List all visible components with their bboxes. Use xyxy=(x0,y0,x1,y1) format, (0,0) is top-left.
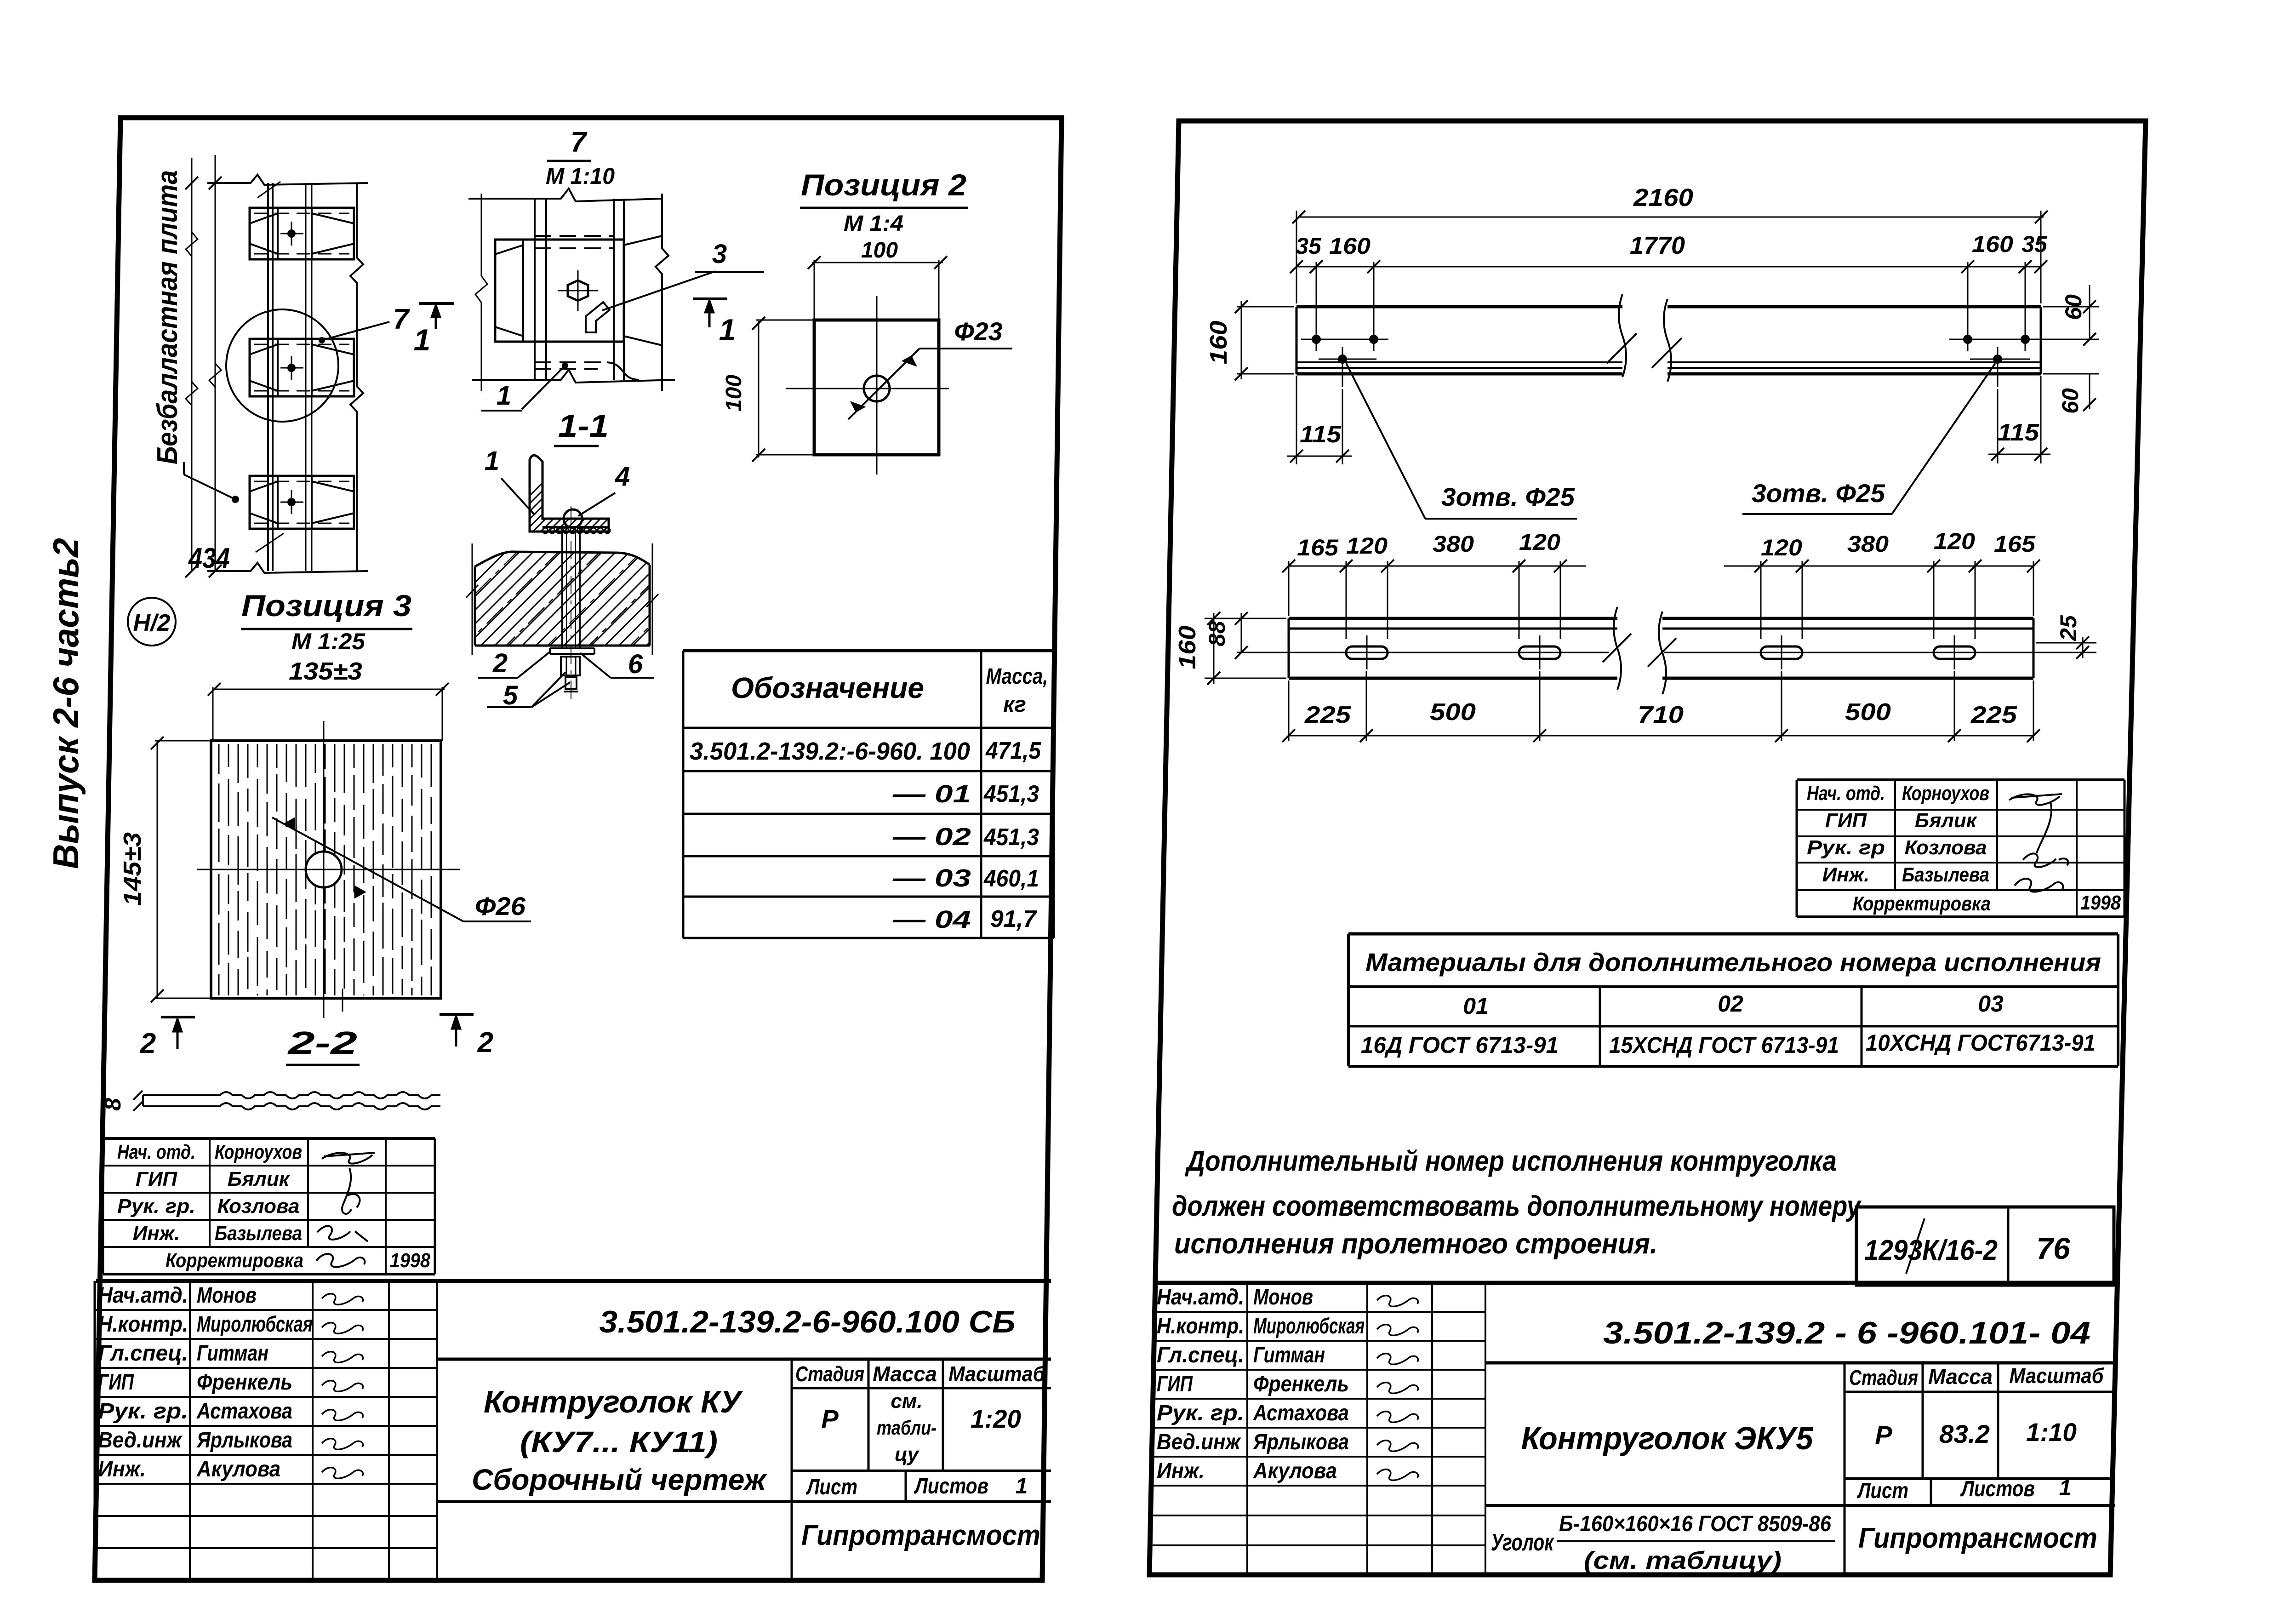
detail callout circle xyxy=(226,309,338,422)
svg-text:Безбалластная плита: Безбалластная плита xyxy=(152,170,183,464)
svg-text:15ХСНД ГОСТ 6713-91: 15ХСНД ГОСТ 6713-91 xyxy=(1609,1032,1839,1058)
svg-text:25: 25 xyxy=(2056,615,2081,641)
holes (dots) bar 1 xyxy=(1301,339,1388,340)
svg-text:Корректировка: Корректировка xyxy=(1853,892,1991,915)
svg-text:Инж.: Инж. xyxy=(1157,1459,1205,1483)
svg-text:Дополнительный номер исполне: Дополнительный номер исполнения контруго… xyxy=(1185,1145,1837,1177)
bar 1 left half xyxy=(1296,305,1622,309)
svg-text:М 1:25: М 1:25 xyxy=(291,629,365,654)
svg-text:Позиция 3: Позиция 3 xyxy=(241,589,411,623)
svg-text:3.501.2-139.2-6-960.100 СБ: 3.501.2-139.2-6-960.100 СБ xyxy=(600,1304,1016,1339)
svg-text:Р: Р xyxy=(1875,1420,1892,1449)
svg-text:35: 35 xyxy=(2022,231,2048,257)
svg-text:120: 120 xyxy=(1346,533,1388,559)
slots xyxy=(1346,646,1388,659)
svg-text:Козлова: Козлова xyxy=(217,1195,300,1218)
dim 25 right xyxy=(2036,642,2096,644)
svg-text:Масштаб: Масштаб xyxy=(948,1362,1045,1386)
svg-text:Нач. отд.: Нач. отд. xyxy=(117,1141,195,1163)
svg-text:1: 1 xyxy=(1016,1474,1028,1498)
svg-text:100: 100 xyxy=(861,238,898,263)
signatures sheet 2 xyxy=(2009,794,2062,853)
svg-text:Гипротрансмост: Гипротрансмост xyxy=(1858,1522,2097,1554)
svg-text:120: 120 xyxy=(1934,528,1975,554)
svg-text:Н/2: Н/2 xyxy=(133,610,171,636)
svg-text:Френкель: Френкель xyxy=(197,1370,292,1395)
svg-text:83.2: 83.2 xyxy=(1939,1419,1990,1448)
dims 60 right xyxy=(2043,306,2099,308)
clamp plate detail xyxy=(495,240,624,342)
leader to slab xyxy=(184,475,235,499)
svg-text:Р: Р xyxy=(821,1404,839,1433)
svg-text:Уголок: Уголок xyxy=(1491,1529,1554,1556)
svg-text:Бялик: Бялик xyxy=(1915,809,1978,832)
svg-text:Френкель: Френкель xyxy=(1253,1372,1349,1396)
svg-text:60: 60 xyxy=(2061,294,2086,320)
svg-text:8: 8 xyxy=(100,1098,126,1111)
clamp unit 1 xyxy=(250,208,354,259)
svg-text:Базылева: Базылева xyxy=(215,1222,302,1245)
svg-text:35: 35 xyxy=(1296,233,1322,259)
svg-text:Листов: Листов xyxy=(914,1474,988,1498)
svg-text:Б-160×160×16 ГОСТ 8509-86: Б-160×160×16 ГОСТ 8509-86 xyxy=(1559,1512,1831,1536)
svg-text:500: 500 xyxy=(1845,699,1891,726)
dim 35 160 1770 160 35 xyxy=(1316,262,1317,329)
bar 1 right half xyxy=(1668,305,2041,309)
dim 115 right xyxy=(1997,389,1999,463)
svg-text:цу: цу xyxy=(895,1443,920,1466)
svg-text:Базылева: Базылева xyxy=(1902,863,1989,886)
svg-text:Гл.спец.: Гл.спец. xyxy=(98,1341,188,1366)
plate square hatched (wood grain) xyxy=(211,741,441,998)
svg-text:Материалы для дополнительног: Материалы для дополнительного номера исп… xyxy=(1365,948,2101,977)
svg-text:Контруголок КУ: Контруголок КУ xyxy=(484,1384,743,1419)
svg-text:1: 1 xyxy=(497,381,511,411)
svg-text:Вед.инж: Вед.инж xyxy=(1157,1430,1241,1454)
nut xyxy=(561,657,580,675)
svg-text:1770: 1770 xyxy=(1630,232,1685,259)
stamp box xyxy=(1856,1207,2114,1285)
table Обозначение/Масса xyxy=(683,649,1054,652)
svg-text:Ф23: Ф23 xyxy=(954,317,1003,346)
svg-text:4: 4 xyxy=(615,462,630,492)
svg-text:(см. таблицу): (см. таблицу) xyxy=(1584,1547,1782,1574)
svg-text:Бялик: Бялик xyxy=(228,1168,291,1190)
svg-text:Рук. гр: Рук. гр xyxy=(1807,836,1885,859)
svg-text:Козлова: Козлова xyxy=(1905,836,1987,859)
dim 115 left xyxy=(1296,376,1297,464)
svg-text:2: 2 xyxy=(492,648,508,678)
svg-text:100: 100 xyxy=(722,375,746,412)
svg-text:Нач.атд.: Нач.атд. xyxy=(98,1283,188,1308)
svg-text:исполнения пролетного строе: исполнения пролетного строения. xyxy=(1174,1228,1657,1260)
svg-text:Стадия: Стадия xyxy=(1849,1366,1918,1390)
svg-text:Лист: Лист xyxy=(1856,1479,1908,1503)
svg-text:1:20: 1:20 xyxy=(971,1404,1021,1433)
svg-text:3отв. Ф25: 3отв. Ф25 xyxy=(1441,482,1575,511)
svg-text:Корноухов: Корноухов xyxy=(1902,782,1989,805)
svg-text:Нач. отд.: Нач. отд. xyxy=(1807,782,1885,805)
rail break marks xyxy=(256,533,284,552)
svg-text:160: 160 xyxy=(1174,625,1201,669)
svg-text:91,7: 91,7 xyxy=(990,906,1037,932)
svg-text:135±3: 135±3 xyxy=(289,658,362,685)
svg-text:165: 165 xyxy=(1297,535,1339,560)
svg-text:кг: кг xyxy=(1003,692,1026,717)
signatures scribbles xyxy=(322,1153,375,1164)
slab top edge xyxy=(207,175,368,185)
sheet 2 border frame xyxy=(1149,121,2146,1575)
svg-text:Инж.: Инж. xyxy=(133,1222,180,1245)
svg-text:160: 160 xyxy=(1329,233,1371,259)
svg-text:ГИП: ГИП xyxy=(1825,809,1867,832)
svg-text:Корректировка: Корректировка xyxy=(166,1249,303,1272)
svg-text:160: 160 xyxy=(1205,320,1232,364)
bolt head xyxy=(564,509,582,528)
svg-text:Масса,: Масса, xyxy=(986,664,1048,689)
svg-text:1-1: 1-1 xyxy=(558,408,609,444)
clamp unit 3 xyxy=(250,476,354,529)
signature block (sheet 1) xyxy=(103,1137,435,1140)
notch with leader 3 xyxy=(586,302,610,332)
svg-text:Гитман: Гитман xyxy=(1253,1343,1325,1367)
svg-text:434: 434 xyxy=(188,543,230,574)
svg-text:Ярлыкова: Ярлыкова xyxy=(1252,1430,1349,1454)
svg-text:1293К/16-2: 1293К/16-2 xyxy=(1864,1235,1998,1266)
svg-text:Корноухов: Корноухов xyxy=(215,1141,302,1163)
svg-text:Ф26: Ф26 xyxy=(475,892,526,921)
detail 7 view xyxy=(468,189,662,201)
clamp unit 2 xyxy=(250,339,354,396)
svg-text:2: 2 xyxy=(140,1028,156,1059)
svg-text:1: 1 xyxy=(719,313,736,347)
svg-text:— 01: — 01 xyxy=(892,780,971,808)
svg-text:145±3: 145±3 xyxy=(119,832,146,906)
svg-text:Гипротрансмост: Гипротрансмост xyxy=(801,1520,1040,1551)
leader Ф23 xyxy=(848,349,919,419)
svg-text:Миролюбская: Миролюбская xyxy=(1253,1314,1365,1338)
svg-text:должен соответствовать допол: должен соответствовать дополнительному н… xyxy=(1172,1190,1862,1222)
svg-text:380: 380 xyxy=(1433,531,1474,557)
slab right edge with breaks xyxy=(350,183,363,571)
svg-text:76: 76 xyxy=(2036,1231,2071,1265)
svg-text:380: 380 xyxy=(1847,531,1889,557)
svg-text:6: 6 xyxy=(628,649,643,679)
svg-text:7: 7 xyxy=(393,303,410,335)
svg-text:3отв. Ф25: 3отв. Ф25 xyxy=(1752,479,1885,508)
svg-text:03: 03 xyxy=(1978,991,2004,1017)
slab bottom edge xyxy=(207,563,368,573)
svg-text:460,1: 460,1 xyxy=(983,865,1039,892)
svg-text:10ХСНД ГОСТ6713-91: 10ХСНД ГОСТ6713-91 xyxy=(1866,1030,2096,1056)
svg-text:Нач.атд.: Нач.атд. xyxy=(1157,1285,1244,1309)
svg-text:2: 2 xyxy=(477,1027,493,1058)
dim 145±3 xyxy=(157,741,158,998)
svg-text:Листов: Листов xyxy=(1960,1477,2035,1501)
leader Ф26 xyxy=(272,818,463,921)
svg-text:1: 1 xyxy=(485,446,499,476)
svg-text:3.501.2-139.2:-6-960. 100: 3.501.2-139.2:-6-960. 100 xyxy=(690,738,970,765)
hole Ф23 xyxy=(864,376,890,401)
svg-text:01: 01 xyxy=(1463,993,1489,1019)
dim 160 left xyxy=(1237,306,1294,308)
title block sheet 1 xyxy=(96,1279,1051,1283)
svg-text:Инж.: Инж. xyxy=(98,1457,146,1481)
svg-text:Сборочный чертеж: Сборочный чертеж xyxy=(472,1463,767,1496)
svg-text:Инж.: Инж. xyxy=(1822,863,1870,886)
svg-text:16Д ГОСТ 6713-91: 16Д ГОСТ 6713-91 xyxy=(1361,1032,1559,1058)
bolt shaft xyxy=(561,528,563,648)
anchor washer plate xyxy=(550,647,594,649)
svg-text:2160: 2160 xyxy=(1633,184,1693,212)
bar 2 right half xyxy=(1662,617,2033,620)
hole Ф26 xyxy=(306,852,342,887)
svg-text:Рук. гр.: Рук. гр. xyxy=(117,1195,195,1218)
svg-text:165: 165 xyxy=(1994,531,2036,557)
dim 8 strip xyxy=(133,1091,143,1100)
materials table xyxy=(1348,932,2118,936)
svg-text:табли-: табли- xyxy=(877,1417,937,1439)
svg-text:(КУ7... КУ11): (КУ7... КУ11) xyxy=(520,1425,718,1458)
slab break marks xyxy=(472,543,473,655)
svg-text:1998: 1998 xyxy=(2080,892,2121,914)
svg-text:Астахова: Астахова xyxy=(196,1399,292,1424)
svg-text:Выпуск 2-6 часть2: Выпуск 2-6 часть2 xyxy=(46,538,86,869)
svg-text:Лист: Лист xyxy=(805,1475,857,1499)
svg-text:Масса: Масса xyxy=(1928,1365,1993,1389)
svg-text:1:10: 1:10 xyxy=(2026,1418,2077,1447)
svg-text:710: 710 xyxy=(1638,702,1684,728)
svg-text:Рук. гр.: Рук. гр. xyxy=(98,1399,188,1424)
svg-text:120: 120 xyxy=(1519,529,1560,555)
plate square xyxy=(814,320,939,455)
svg-text:02: 02 xyxy=(1718,991,1743,1017)
washers serrated xyxy=(543,526,607,528)
leader 7 xyxy=(322,322,389,340)
svg-text:Масса: Масса xyxy=(873,1362,937,1386)
signature block sheet 2 xyxy=(1797,778,2124,781)
title block signatures xyxy=(322,1294,363,1305)
svg-text:1: 1 xyxy=(414,323,431,357)
svg-text:225: 225 xyxy=(1970,702,2017,728)
svg-text:115: 115 xyxy=(1998,419,2039,446)
svg-text:Миролюбская: Миролюбская xyxy=(197,1312,313,1337)
svg-text:Стадия: Стадия xyxy=(795,1362,864,1386)
svg-text:Акулова: Акулова xyxy=(1253,1459,1337,1483)
svg-text:М 1:10: М 1:10 xyxy=(546,163,615,189)
svg-text:225: 225 xyxy=(1304,702,1351,728)
svg-text:ГИП: ГИП xyxy=(136,1168,178,1190)
section marks 2-2 xyxy=(161,1016,195,1018)
corrugated strip section 2-2 xyxy=(143,1092,440,1098)
svg-text:М 1:4: М 1:4 xyxy=(844,212,903,236)
dim 100 left xyxy=(758,321,760,457)
svg-text:Астахова: Астахова xyxy=(1253,1401,1349,1425)
svg-text:Контруголок ЭКУ5: Контруголок ЭКУ5 xyxy=(1521,1420,1814,1456)
bar 2 left half xyxy=(1289,617,1617,620)
svg-text:5: 5 xyxy=(503,680,518,710)
svg-text:3.501.2-139.2 - 6 -960.101- 04: 3.501.2-139.2 - 6 -960.101- 04 xyxy=(1603,1315,2090,1350)
svg-text:500: 500 xyxy=(1430,699,1476,726)
svg-text:451,3: 451,3 xyxy=(983,824,1039,851)
svg-text:см.: см. xyxy=(891,1390,922,1412)
section mark 1 (top) xyxy=(419,302,454,305)
svg-text:3: 3 xyxy=(712,239,727,269)
sheet 1 border frame xyxy=(95,118,1062,1580)
svg-text:471,5: 471,5 xyxy=(985,738,1041,764)
profile S-edge xyxy=(607,362,639,380)
bolt hex xyxy=(568,280,588,301)
svg-text:Монов: Монов xyxy=(197,1283,257,1308)
svg-text:— 03: — 03 xyxy=(892,864,971,892)
svg-text:7: 7 xyxy=(571,126,588,158)
rail lines xyxy=(267,183,269,571)
svg-text:Вед.инж: Вед.инж xyxy=(98,1428,183,1452)
svg-text:Гитман: Гитман xyxy=(197,1341,268,1366)
svg-text:451,3: 451,3 xyxy=(983,781,1039,807)
svg-text:Н.контр.: Н.контр. xyxy=(98,1312,188,1337)
leader 1 (detail) xyxy=(522,366,565,409)
svg-text:Н.контр.: Н.контр. xyxy=(1157,1314,1244,1338)
dim 2160 xyxy=(1296,211,1297,303)
svg-text:120: 120 xyxy=(1761,535,1802,560)
svg-text:88: 88 xyxy=(1204,621,1230,646)
title block right zone lines xyxy=(437,1358,1051,1361)
svg-text:Гл.спец.: Гл.спец. xyxy=(1157,1343,1244,1367)
svg-text:1: 1 xyxy=(2059,1476,2072,1500)
svg-text:Обозначение: Обозначение xyxy=(731,671,924,704)
svg-text:ГИП: ГИП xyxy=(1157,1372,1193,1396)
svg-text:Акулова: Акулова xyxy=(196,1457,280,1481)
section mark 1 (right) xyxy=(693,297,727,300)
svg-text:Масштаб: Масштаб xyxy=(2010,1364,2104,1388)
svg-text:60: 60 xyxy=(2057,388,2083,414)
svg-text:160: 160 xyxy=(1972,231,2013,257)
svg-text:Рук. гр.: Рук. гр. xyxy=(1157,1401,1244,1425)
svg-text:— 04: — 04 xyxy=(892,906,971,933)
node H/2 circle xyxy=(128,598,176,646)
title block sheet 2 xyxy=(1155,1281,2119,1285)
top dims 165 120 380 120 / 120 380 120 165 xyxy=(1288,561,1290,616)
dim 160/88 left xyxy=(1205,618,1286,619)
svg-text:Монов: Монов xyxy=(1253,1285,1313,1309)
svg-text:1998: 1998 xyxy=(390,1249,430,1272)
svg-text:Ярлыкова: Ярлыкова xyxy=(196,1428,292,1452)
svg-text:— 02: — 02 xyxy=(892,823,971,851)
svg-text:ГИП: ГИП xyxy=(98,1370,134,1395)
svg-text:115: 115 xyxy=(1300,421,1342,448)
bottom dims 225 500 710 500 225 xyxy=(1288,680,1290,741)
svg-text:2-2: 2-2 xyxy=(287,1025,357,1061)
svg-text:Позиция 2: Позиция 2 xyxy=(801,168,966,202)
dimension line 434 xyxy=(191,158,193,571)
